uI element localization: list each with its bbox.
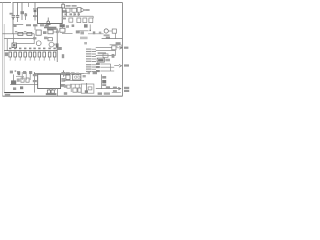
border frame bottom	[3, 95, 123, 97]
resistor bank R23	[19, 52, 22, 57]
transistor Q1	[36, 41, 41, 46]
label d	[78, 13, 81, 15]
label	[112, 54, 115, 58]
wire stub x93.2 down	[92, 16, 94, 18]
node blob on x35	[34, 10, 37, 12]
capacitor C1	[12, 16, 16, 17]
inner box	[88, 87, 92, 90]
wire vertical x35 left of U1	[34, 3, 36, 21]
label right of gate	[85, 9, 89, 11]
resistor R12	[66, 8, 70, 12]
small box left	[67, 85, 70, 88]
buffer gate U3 triangle	[81, 8, 85, 12]
border frame left inner	[3, 24, 5, 93]
label bottom	[64, 92, 67, 95]
label	[76, 30, 80, 33]
net stub wires column	[92, 49, 96, 71]
transistor Q2	[49, 42, 54, 47]
label D2	[66, 72, 70, 75]
oscillator X1 dark box	[97, 58, 104, 62]
label under Q3	[104, 34, 110, 36]
relay K3 contact circle b	[78, 76, 80, 78]
pin label U2 left a	[33, 74, 37, 76]
label C3 value	[25, 13, 28, 16]
wire R11 top	[62, 3, 64, 5]
pin label U1 left lower	[33, 15, 37, 17]
label dark under diodes	[46, 93, 57, 95]
transistor block box	[81, 84, 94, 93]
diode D1 box	[77, 8, 81, 13]
label dark	[60, 24, 65, 27]
wire vertical drop x25.5	[25, 13, 27, 20]
resistor bank R28	[43, 52, 46, 57]
wire pullup bus y50.6	[4, 50, 57, 52]
resistor R2	[27, 32, 32, 35]
connector J1 box near border	[117, 45, 121, 48]
wire y92.6 right	[112, 92, 121, 94]
wire top-right bus y8	[64, 7, 77, 9]
wire x79.2	[78, 84, 80, 88]
capacitor bank C5	[77, 18, 81, 23]
label between Q1 Q2	[44, 37, 48, 40]
border frame top	[0, 2, 11, 4]
wire y33.6	[62, 33, 73, 35]
resistor R1	[18, 32, 23, 35]
wire vertical drop x22	[21, 3, 23, 21]
label under D5	[113, 90, 117, 92]
resistor bank R26	[33, 52, 36, 57]
label text band lower	[47, 28, 57, 29]
resistor R11 above U1 right edge	[62, 4, 65, 8]
component on wire	[106, 86, 110, 88]
oscillator X1 text	[98, 59, 103, 61]
wire x13.6 bottom	[13, 74, 15, 80]
wire y44.8	[110, 44, 121, 46]
crystal Y2 box	[12, 43, 17, 48]
connector arrow J3	[119, 64, 122, 67]
wire x57.6 down	[57, 89, 59, 96]
wire y47.6 right block	[96, 47, 112, 49]
resistor R15 box	[60, 28, 65, 32]
label	[64, 85, 67, 88]
resistor R13	[72, 8, 77, 12]
off-page label J2	[124, 47, 128, 49]
node corner x57	[56, 46, 58, 50]
resistor bank value labels row	[9, 48, 56, 50]
label	[72, 24, 75, 27]
label b	[70, 13, 73, 15]
wire vertical x57.2 long	[56, 29, 58, 63]
resistor bank R25	[29, 52, 32, 57]
wire vertical drop x17.5	[17, 3, 19, 16]
wire y33.8 right	[88, 33, 104, 35]
label	[40, 24, 44, 26]
relay K2 box	[66, 74, 70, 79]
transistor Q3	[104, 29, 108, 33]
label left of resistor bank	[5, 52, 8, 56]
wire x26.2	[25, 72, 27, 80]
stub U2 bottom a	[49, 89, 55, 91]
capacitor C10 box	[26, 78, 29, 82]
wire U2 to K2	[61, 73, 66, 75]
label	[93, 31, 96, 34]
connector arrow J4	[118, 87, 121, 90]
wire vertical drop x13 from top bus	[12, 3, 14, 16]
resistor bank R22	[14, 52, 17, 57]
capacitor C12 box	[78, 88, 81, 92]
net label lower right c	[96, 70, 100, 72]
wire y55.6 right	[96, 55, 116, 57]
resistor bank R30	[53, 52, 56, 57]
label	[98, 52, 106, 54]
off-page label J4 a	[124, 87, 129, 89]
diode D4 box	[51, 90, 54, 93]
node label right of x13	[14, 25, 17, 27]
wire drop x78.3	[77, 12, 79, 16]
wire bus y38.6	[4, 38, 34, 40]
wire bus y33.8	[3, 33, 35, 35]
wire drop x66.5	[66, 12, 68, 16]
relay K3 contact circle a	[74, 76, 76, 78]
wire vertical x13.5 to Y2	[13, 34, 15, 43]
wire y65.6 to connector	[114, 65, 119, 67]
wire Q3 to R16	[108, 30, 112, 32]
wire x115.4 down	[114, 33, 116, 38]
capacitor C11 box	[73, 88, 77, 92]
pin label U2 right b	[61, 78, 65, 82]
wire x30.2	[29, 72, 31, 80]
node junction below C1	[12, 18, 14, 19]
wire x101.6 bottom right	[101, 74, 103, 88]
border frame right	[122, 3, 124, 97]
wire x17.5 lower stub	[17, 17, 19, 22]
net label	[93, 72, 97, 74]
label faint mid	[80, 37, 88, 40]
ground below Y1	[46, 24, 51, 26]
net label row b	[15, 70, 17, 72]
label right of L1	[43, 31, 47, 34]
label row above y16 bus	[65, 13, 68, 15]
label below bank right	[62, 54, 64, 58]
resistor bank stubs	[10, 57, 54, 59]
node dark above ground bus	[20, 86, 23, 89]
capacitor C9 box	[21, 78, 24, 82]
chevron mark	[76, 73, 79, 76]
label	[99, 32, 102, 34]
label	[66, 25, 69, 28]
label row top-right	[66, 5, 71, 7]
label right of Q2	[54, 44, 56, 46]
net label row d	[23, 71, 26, 74]
relay K3 box	[73, 74, 81, 80]
label right of X1	[105, 59, 110, 62]
resistor R16 box	[112, 29, 116, 33]
label bottom right b	[104, 92, 110, 94]
node faint mid	[84, 42, 87, 44]
label row mid-center	[33, 24, 38, 26]
capacitor C13 box	[48, 38, 52, 41]
wire y43.6	[17, 43, 35, 45]
label b dark	[102, 80, 106, 83]
wire bus y38.6 right	[102, 38, 123, 40]
label right of D2	[71, 72, 75, 75]
pin label U1 left upper	[33, 8, 37, 9]
off-page label J3	[124, 64, 129, 66]
inner dark mark	[85, 90, 88, 93]
wire x71.2	[70, 84, 72, 92]
capacitor bank C4	[69, 18, 73, 22]
pin label U2 right c	[61, 84, 65, 87]
diode D3 box	[47, 90, 50, 93]
resistor bank R21	[9, 52, 12, 57]
diode D5 marks	[113, 87, 117, 89]
op-amp U2 main IC block lower	[38, 74, 61, 88]
relay K1 box	[112, 46, 116, 50]
net label row bottom-left a	[10, 71, 13, 74]
wire x62.5 stub	[62, 27, 64, 29]
wire y88.6 bottom right	[96, 88, 121, 90]
connector arrow J2	[119, 46, 122, 49]
crystal Y1 lead	[47, 18, 49, 22]
wire y84.6	[10, 84, 37, 86]
net label row e	[29, 71, 32, 74]
label text band	[44, 27, 56, 29]
capacitor bank C7	[89, 18, 93, 23]
label a	[102, 76, 106, 79]
label c	[74, 13, 77, 15]
label below K3	[83, 75, 86, 77]
capacitor C8 box	[103, 54, 108, 57]
wire y30.8 right	[78, 30, 89, 32]
component on y38.6	[106, 37, 110, 39]
off-page label J4 b	[124, 90, 129, 92]
label bottom right a	[98, 92, 102, 94]
component dark blob on x57	[56, 43, 59, 47]
label C2 value	[21, 11, 25, 14]
diode D2 on wire	[63, 70, 65, 76]
inductor L1 box	[36, 30, 41, 35]
net label	[26, 24, 31, 26]
wire vertical x34.2	[33, 34, 35, 44]
label R1	[15, 31, 17, 32]
label under ground bus	[5, 94, 10, 96]
wire y67.2	[100, 66, 114, 68]
wire vertical x35 mid	[34, 24, 36, 30]
wire x34.6 left of U2	[34, 72, 36, 93]
resistor bank ground dots	[10, 59, 56, 61]
border frame left	[1, 3, 3, 97]
resistor bank R27	[38, 52, 41, 57]
wire vertical x7.2	[6, 39, 8, 51]
wire x75.2	[74, 84, 76, 88]
label dark	[84, 24, 88, 27]
label dark small	[18, 72, 21, 75]
net label lower right b	[96, 66, 100, 68]
label left of caps	[17, 78, 20, 81]
wire bus y16	[63, 15, 93, 17]
label right of U1	[62, 10, 66, 13]
wire y32	[53, 31, 57, 33]
wire y71	[100, 70, 114, 72]
wire y50.6 right	[96, 50, 116, 52]
wire vertical x110.6	[110, 64, 112, 71]
label near corner	[58, 47, 62, 50]
pin label U2 right a	[61, 72, 65, 75]
net label column row1	[86, 49, 91, 73]
resistor bank R24	[24, 52, 27, 57]
label R2	[24, 31, 26, 32]
wire drop x74	[73, 12, 75, 16]
capacitor C2	[16, 16, 19, 17]
component dark blob with label	[11, 80, 16, 84]
label above y44.8	[116, 42, 121, 44]
wire y84.2 stub	[70, 83, 81, 85]
op-amp U1 main IC block	[38, 8, 63, 24]
net label	[88, 72, 90, 74]
resistor bank R29	[48, 52, 51, 57]
net label row c	[17, 71, 20, 74]
label left of R15	[56, 31, 59, 34]
label left of Q1	[33, 37, 36, 39]
label left of K2	[63, 73, 65, 76]
node dot x90	[90, 30, 91, 31]
label c	[102, 84, 106, 86]
resistor R14 box	[48, 30, 53, 34]
wire vertical x90.2	[89, 24, 91, 30]
label above ground bus	[13, 87, 16, 90]
ground bus heavy y92.6	[4, 92, 24, 94]
wire x22.2	[21, 72, 23, 80]
wire x115.4	[114, 50, 116, 56]
wire vertical drop x28.5	[28, 3, 30, 8]
crystal Y1	[47, 21, 50, 24]
label row top-right b	[72, 5, 77, 7]
label	[45, 25, 48, 27]
wire long y73.6	[34, 73, 84, 75]
net label lower right a	[96, 63, 100, 65]
wire mid bus y24.6	[13, 24, 23, 26]
wire y80.6 below relays	[64, 80, 84, 82]
wire Y1 down	[47, 25, 49, 28]
inner wire x86.6	[86, 83, 88, 91]
pin label U2 left b	[33, 80, 37, 82]
wire y73.6 right of K3	[81, 73, 90, 75]
wire x13 down to mid bus	[12, 17, 14, 33]
wire y64	[100, 63, 110, 65]
pin label U1 right lower	[62, 18, 66, 20]
wire y76.6	[16, 76, 24, 78]
crystal Y2 inner	[13, 44, 15, 46]
label C1 value	[10, 13, 13, 15]
label	[80, 31, 84, 34]
capacitor bank C6	[83, 18, 87, 23]
